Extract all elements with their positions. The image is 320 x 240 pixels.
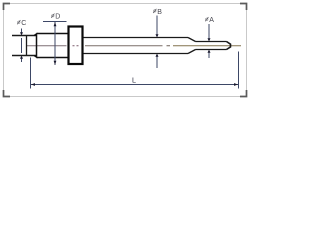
centerline (axis) bbox=[27, 45, 241, 47]
tip (diameter A section) with blunt point bbox=[196, 42, 231, 50]
dimension L: dimension line with arrows bbox=[31, 84, 238, 86]
svg-text:C: C bbox=[21, 20, 26, 27]
centerline dots inside flange bbox=[73, 45, 79, 47]
dimension A: label bbox=[205, 17, 214, 24]
diameter D section with chamfered shoulder bbox=[34, 34, 67, 58]
dimension L: extension lines bbox=[31, 52, 239, 89]
flange (head) bbox=[69, 27, 83, 65]
dimension B: label bbox=[153, 9, 162, 16]
pin stem (diameter C section), open left end bbox=[12, 36, 37, 56]
svg-text:A: A bbox=[209, 17, 214, 24]
svg-text:L: L bbox=[132, 76, 136, 85]
taper to tip bbox=[188, 38, 196, 54]
dimension D: shelf + leader with arrows bbox=[43, 22, 67, 66]
stem feature line bbox=[26, 36, 28, 56]
dimension D: label bbox=[51, 14, 60, 21]
shaft (diameter B section) bbox=[84, 38, 189, 54]
dimension C: label bbox=[17, 20, 26, 27]
dimension B: leader with arrows bbox=[156, 16, 158, 69]
dimension A: leader with arrows bbox=[208, 24, 210, 58]
svg-text:D: D bbox=[55, 14, 60, 21]
dimension C: leader with arrows bbox=[21, 29, 23, 63]
svg-text:B: B bbox=[157, 9, 162, 16]
